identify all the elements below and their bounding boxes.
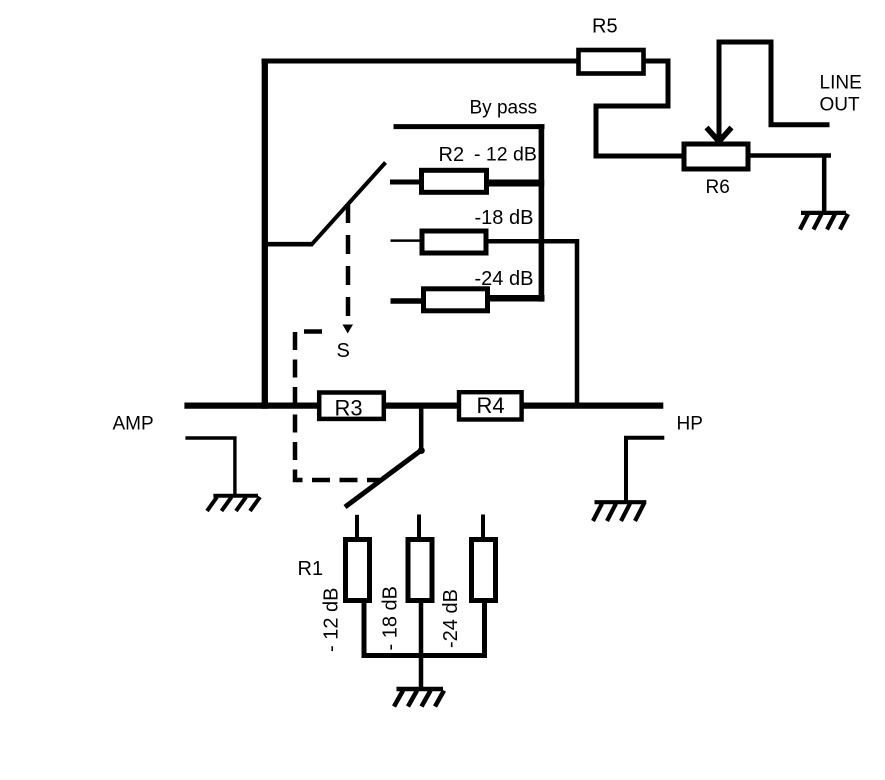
svg-text:R3: R3 [335, 396, 363, 421]
resistor R1a [346, 540, 370, 601]
svg-text:- 12 dB: - 12 dB [474, 144, 537, 166]
wire R1 bottom bus [362, 653, 488, 658]
pivot dot lower switch [418, 447, 425, 454]
potentiometer R6 [684, 144, 748, 169]
switch arm upper [311, 163, 386, 246]
wire R1a top stub [355, 515, 359, 538]
resistor R5 [579, 50, 644, 74]
svg-text:-18 dB: -18 dB [475, 207, 534, 229]
svg-text:R6: R6 [706, 177, 730, 198]
wire -24 dB to bus [488, 295, 545, 302]
wire lower switch stub [419, 406, 424, 451]
arrowhead on dashed link [343, 325, 354, 334]
wire -18 dB output to HP node [486, 241, 577, 406]
wire switch pivot stub [262, 242, 313, 247]
svg-text:R5: R5 [592, 16, 618, 38]
svg-text:AMP: AMP [113, 414, 154, 435]
wire R6 right terminal to ground [748, 156, 831, 213]
switch arm lower [345, 450, 422, 507]
wire selector right bus vertical [539, 124, 545, 301]
wire R2 to bus [487, 180, 545, 187]
svg-text:HP: HP [677, 414, 703, 435]
resistor R2 [422, 170, 487, 192]
wire R1b top stub [417, 515, 421, 539]
ground below HP [593, 502, 646, 521]
svg-text:LINE: LINE [820, 73, 862, 94]
ground below R1 bank [394, 689, 444, 707]
svg-text:- 12 dB: - 12 dB [321, 588, 343, 652]
resistor -18 dB [422, 231, 486, 253]
wire top horizontal from node A to R5 [262, 59, 579, 64]
resistor R1b [408, 540, 432, 601]
svg-text:-24 dB: -24 dB [440, 589, 462, 648]
svg-text:S: S [337, 340, 350, 362]
svg-text:R2: R2 [439, 144, 465, 166]
svg-text:OUT: OUT [820, 95, 861, 116]
wire -18 left stub [391, 239, 422, 242]
ground below R6 [800, 213, 848, 230]
wire AMP ground stub [185, 438, 235, 495]
ground below AMP [207, 496, 260, 511]
svg-text:R1: R1 [298, 558, 324, 580]
wire R6 wiper arm with top link [719, 42, 830, 141]
wire bus to ground [419, 656, 424, 688]
resistor R4 [459, 392, 522, 419]
svg-text:By pass: By pass [470, 98, 538, 119]
wire HP ground stub [626, 438, 664, 502]
wire bypass horizontal [394, 124, 545, 129]
wiper arrowhead into R6 [707, 128, 732, 142]
wire left vertical bus (input node) [262, 59, 268, 409]
resistor -24 dB [424, 289, 488, 311]
resistor R3 [319, 393, 384, 419]
svg-text:- 18 dB: - 18 dB [380, 586, 402, 650]
dashed mechanical coupling to lower switch [295, 332, 380, 481]
wire -24 left stub [391, 298, 424, 304]
wire R1c top stub [481, 515, 485, 539]
resistor R1c [472, 540, 496, 601]
wire R1b bottom stub [419, 600, 424, 656]
svg-text:R4: R4 [477, 393, 505, 418]
wire R5 output step to R6 [596, 61, 683, 156]
wire main line AMP to HP [184, 402, 663, 408]
wire R1a bottom stub [362, 600, 367, 656]
wire R2 left stub [390, 180, 420, 185]
wire R1c bottom stub [482, 600, 487, 656]
dashed link from upper arm [346, 204, 351, 320]
